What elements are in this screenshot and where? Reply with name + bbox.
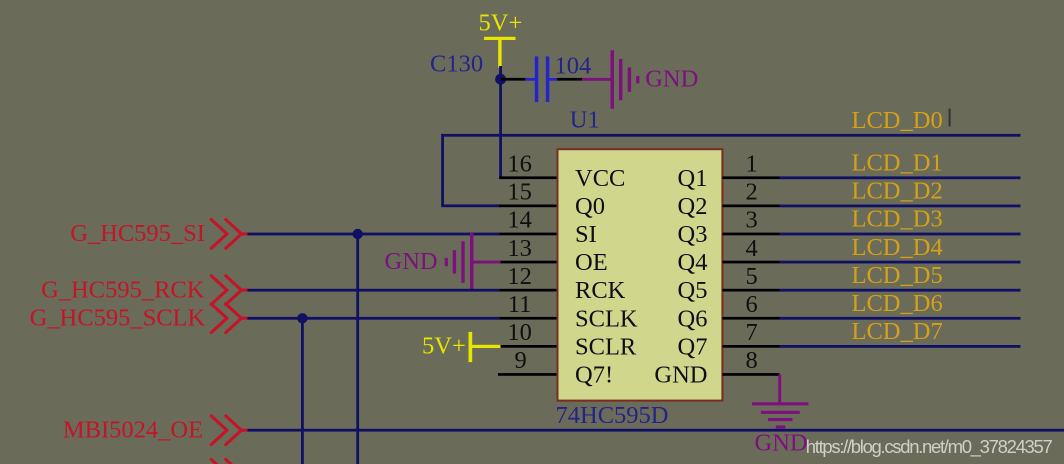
wire capacitor to GND (black) [557, 78, 583, 81]
svg-text:14: 14 [507, 207, 532, 234]
svg-text:LCD_D6: LCD_D6 [852, 290, 943, 317]
pin 12 stub [499, 289, 556, 292]
svg-text:SCLR: SCLR [575, 333, 637, 360]
svg-text:LCD_D7: LCD_D7 [852, 318, 943, 345]
svg-text:SI: SI [575, 221, 597, 248]
svg-text:5: 5 [745, 263, 757, 290]
wire MBI5024_OE horizontal [248, 429, 1064, 432]
pin 2 stub [722, 205, 779, 208]
svg-text:3: 3 [745, 207, 757, 234]
junction node at C130 tap [495, 74, 506, 85]
svg-text:LCD_D4: LCD_D4 [852, 234, 943, 261]
wire net LCD_D7 [780, 345, 1021, 348]
junction node on SCLK wire [297, 313, 307, 323]
pin 5 stub [722, 289, 779, 292]
svg-text:G_HC595_SI: G_HC595_SI [70, 220, 205, 247]
svg-text:7: 7 [745, 319, 757, 346]
svg-text:Q7!: Q7! [575, 362, 613, 389]
svg-text:LCD_D2: LCD_D2 [852, 178, 943, 205]
pin 7 stub [722, 345, 779, 348]
svg-text:104: 104 [555, 52, 592, 79]
svg-text:2: 2 [745, 179, 757, 206]
power symbol 5V+ (pin10, bar style) [422, 332, 501, 362]
wire 5V+ to pin16 VCC (vertical navy) [499, 66, 502, 179]
port G_HC595_SCLK chevrons [211, 304, 247, 333]
pin 6 stub [722, 317, 779, 320]
svg-text:8: 8 [745, 347, 757, 374]
wire net LCD_D5 [780, 289, 1021, 292]
svg-text:LCD_D1: LCD_D1 [852, 150, 943, 177]
svg-text:https://blog.csdn.net/m0_37824: https://blog.csdn.net/m0_37824357 [806, 436, 1053, 458]
wire net LCD_D0 horizontal [441, 134, 1020, 137]
svg-text:1: 1 [745, 151, 757, 178]
wire junction to capacitor (black) [501, 78, 526, 81]
svg-text:9: 9 [514, 347, 526, 374]
svg-text:Q4: Q4 [678, 249, 708, 276]
port (bottom, partially visible) chevrons [211, 459, 241, 464]
wire G_HC595_SI to pin14 [248, 233, 500, 236]
wire net LCD_D6 [780, 317, 1021, 320]
svg-text:12: 12 [507, 263, 532, 290]
svg-text:Q1: Q1 [678, 165, 708, 192]
wire G_HC595_SCLK to pin11 [248, 317, 500, 320]
pin 13 stub [499, 261, 556, 264]
svg-text:RCK: RCK [575, 277, 626, 304]
svg-text:G_HC595_SCLK: G_HC595_SCLK [30, 304, 206, 331]
svg-text:LCD_D0: LCD_D0 [852, 107, 943, 134]
port G_HC595_SI chevrons [211, 220, 247, 249]
ground GND (bottom earth symbol) [752, 402, 808, 428]
svg-text:5V+: 5V+ [479, 10, 523, 37]
pin 8 stub [722, 373, 779, 376]
svg-text:C130: C130 [430, 51, 483, 78]
svg-text:4: 4 [745, 235, 757, 262]
wire SI vertical drop [356, 234, 359, 464]
ground GND (left, rotated bar ground) [445, 233, 474, 291]
junction node on SI wire [353, 229, 363, 239]
pin 1 stub [722, 176, 779, 179]
svg-text:11: 11 [508, 291, 532, 318]
pin 9 stub [498, 373, 557, 376]
svg-text:Q3: Q3 [678, 221, 708, 248]
svg-text:74HC595D: 74HC595D [556, 402, 669, 429]
pin 15 stub [499, 205, 556, 208]
svg-text:LCD_D3: LCD_D3 [852, 206, 943, 233]
wire LCD_D0 vertical riser [441, 134, 444, 206]
wire Q0 to riser (navy) [441, 204, 500, 207]
svg-text:GND: GND [645, 66, 698, 93]
port MBI5024_OE chevrons [211, 416, 247, 445]
text cursor artifact [949, 109, 951, 127]
pin 11 stub [499, 317, 556, 320]
wire net LCD_D2 [780, 205, 1021, 208]
svg-text:16: 16 [507, 151, 532, 178]
wire SCLK vertical drop [301, 318, 304, 464]
svg-text:U1: U1 [570, 107, 600, 134]
wire G_HC595_RCK to pin12 [248, 289, 500, 292]
wire net LCD_D3 [780, 233, 1021, 236]
port G_HC595_RCK chevrons [211, 276, 247, 305]
svg-text:GND: GND [385, 248, 438, 275]
svg-text:5V+: 5V+ [422, 333, 466, 360]
wire capacitor to GND (purple segment) [582, 78, 611, 81]
svg-text:Q2: Q2 [678, 193, 708, 220]
pin 3 stub [722, 233, 779, 236]
svg-text:GND: GND [755, 430, 808, 457]
svg-text:6: 6 [745, 291, 757, 318]
pin 14 stub [499, 233, 556, 236]
svg-text:Q5: Q5 [678, 277, 708, 304]
wire net LCD_D1 [780, 176, 1021, 179]
wire net LCD_D4 [780, 261, 1021, 264]
svg-text:Q7: Q7 [678, 333, 708, 360]
svg-text:Q0: Q0 [575, 193, 605, 220]
svg-text:13: 13 [507, 235, 532, 262]
svg-text:VCC: VCC [575, 165, 625, 192]
pin 4 stub [722, 261, 779, 264]
svg-text:Q6: Q6 [678, 305, 708, 332]
capacitor C130 (plates) [525, 56, 557, 102]
svg-text:G_HC595_RCK: G_HC595_RCK [41, 276, 205, 303]
ground GND (top, rotated bar ground) [611, 50, 640, 108]
svg-text:SCLK: SCLK [575, 305, 638, 332]
svg-text:15: 15 [507, 179, 532, 206]
pin 10 stub [499, 345, 556, 348]
svg-text:10: 10 [507, 319, 532, 346]
IC U1 body [558, 149, 723, 400]
wire pin8 to ground (purple vertical) [778, 374, 781, 403]
svg-text:LCD_D5: LCD_D5 [852, 262, 943, 289]
wire GND to pin13 (purple) [473, 261, 501, 264]
svg-text:GND: GND [654, 362, 707, 389]
power symbol 5V+ (top, bar style) [479, 10, 523, 68]
svg-text:OE: OE [575, 249, 608, 276]
svg-text:MBI5024_OE: MBI5024_OE [63, 416, 203, 443]
pin 16 stub [499, 176, 556, 179]
